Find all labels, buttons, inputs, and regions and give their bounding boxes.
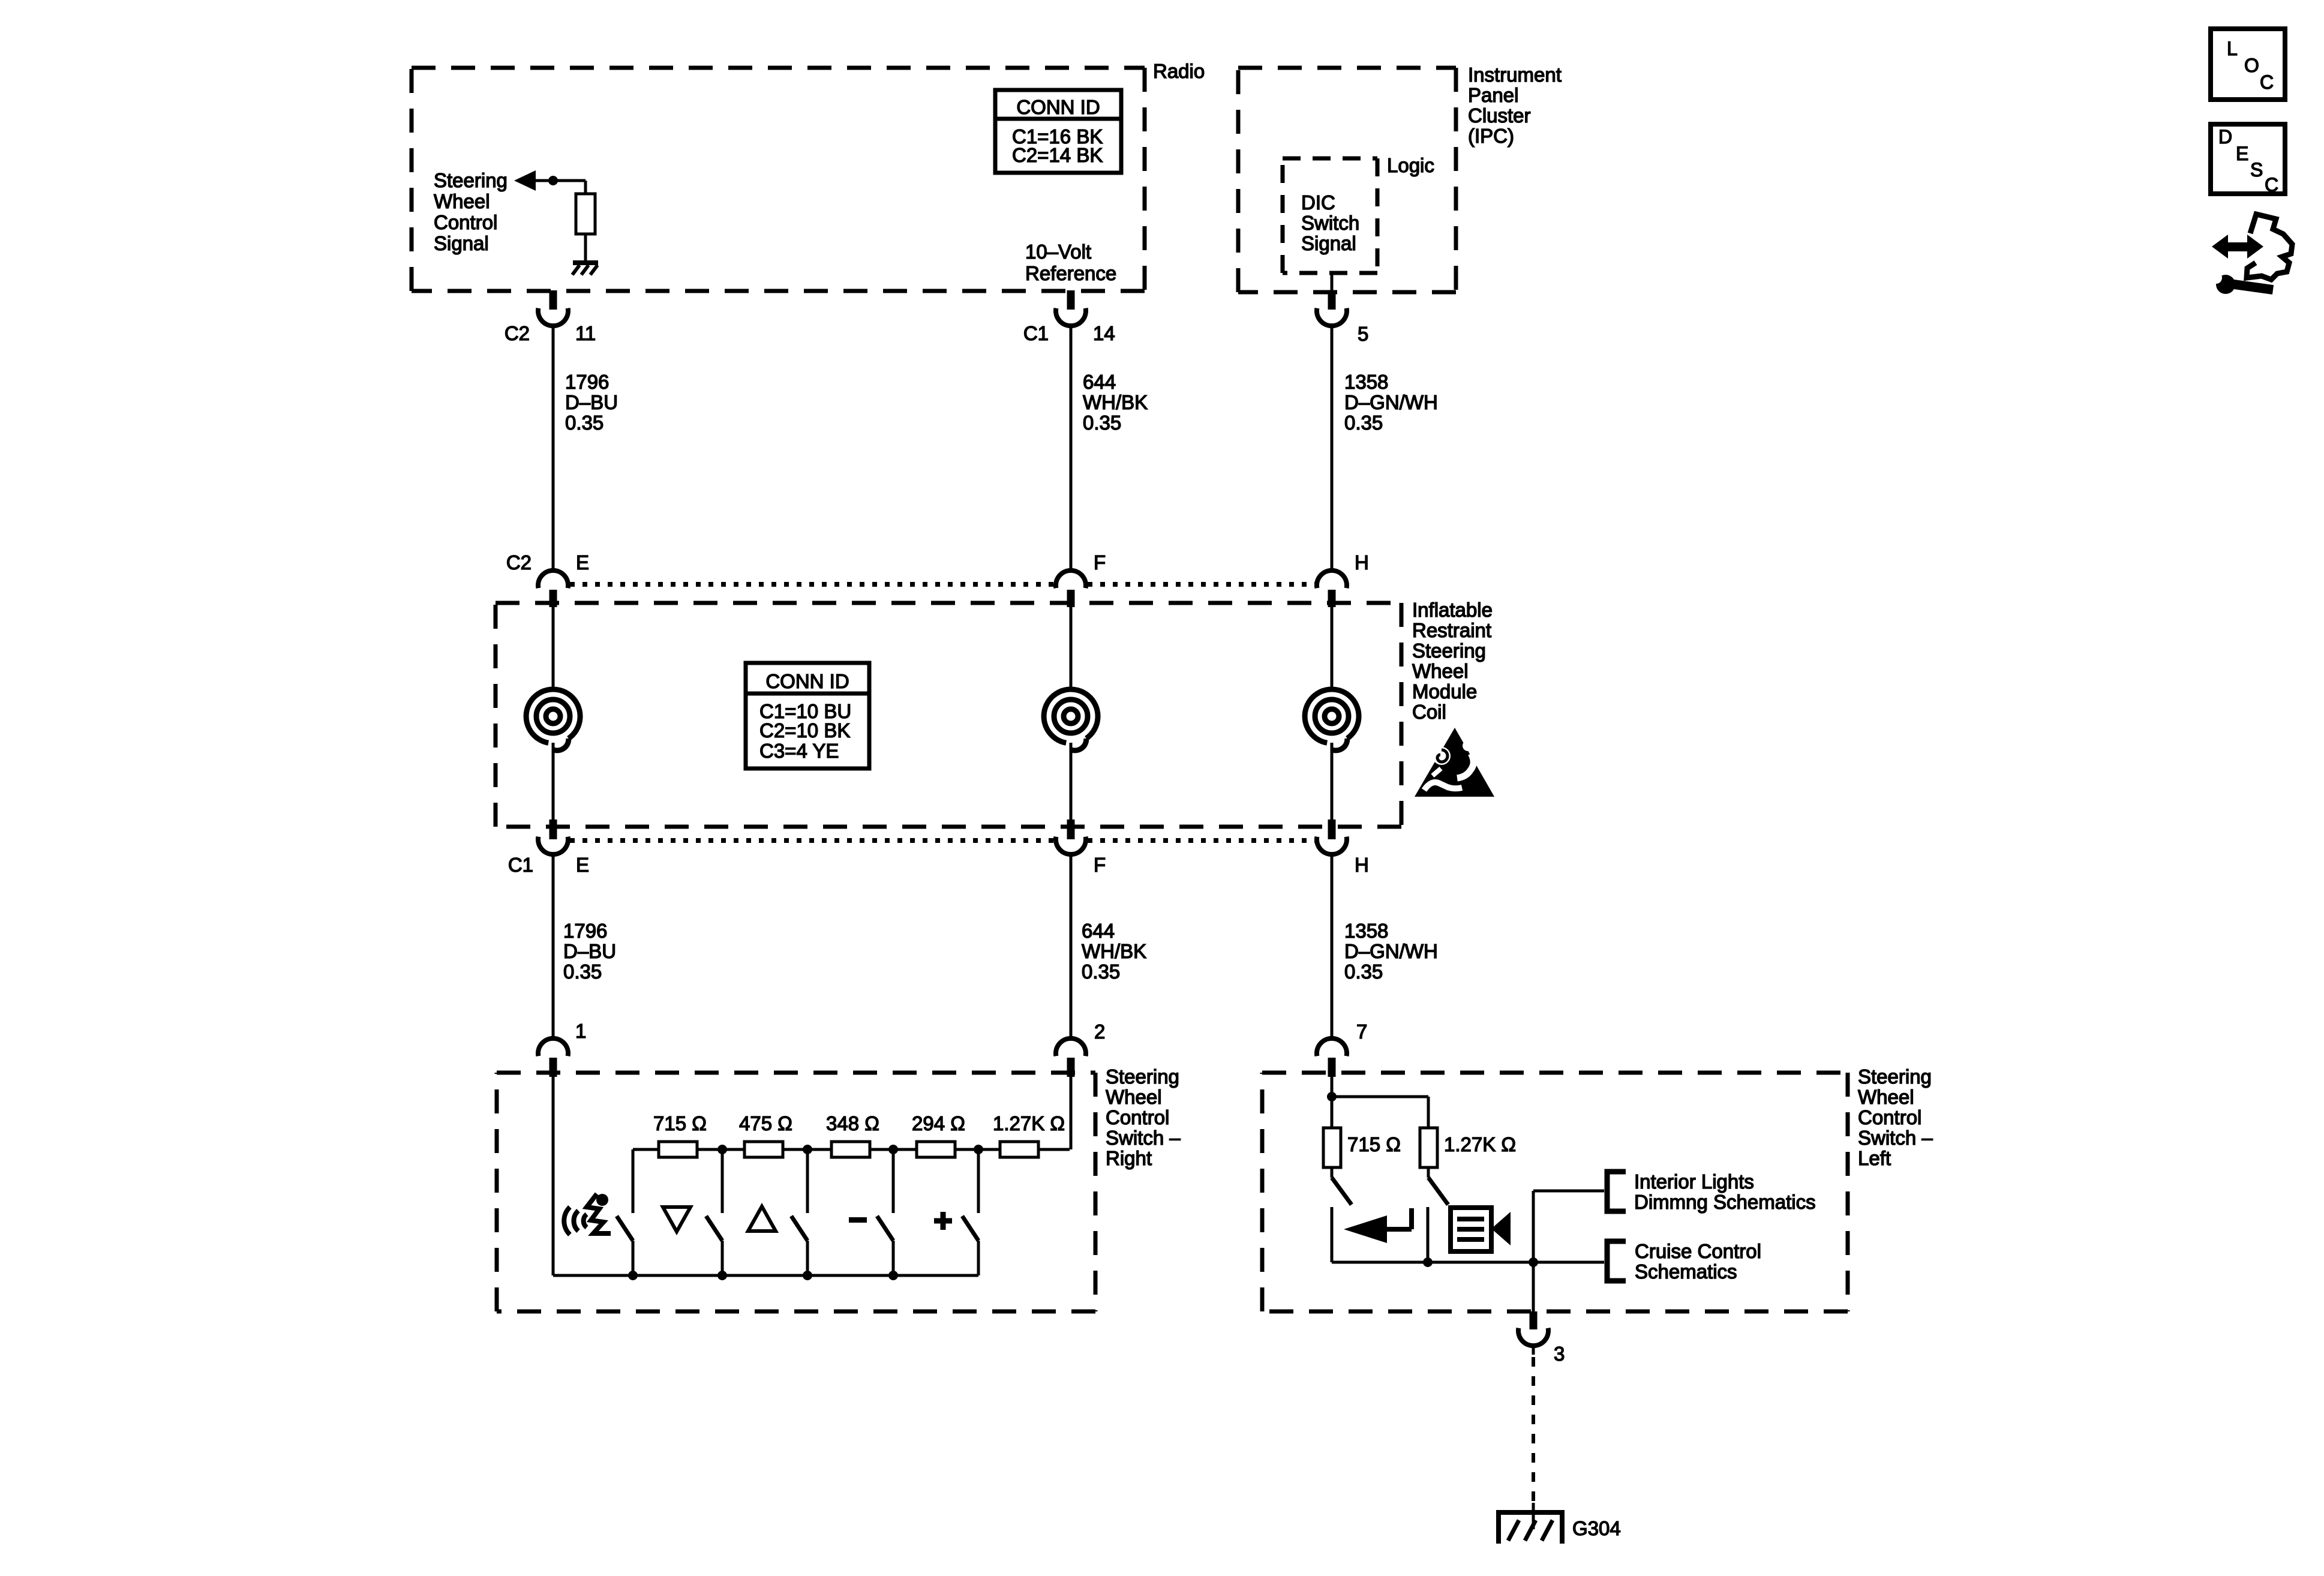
svg-text:1796: 1796 bbox=[563, 920, 607, 942]
svg-text:D: D bbox=[2218, 126, 2232, 148]
svg-text:F: F bbox=[1094, 854, 1106, 876]
svg-text:5: 5 bbox=[1358, 323, 1368, 345]
svg-text:D–GN/WH: D–GN/WH bbox=[1344, 391, 1438, 413]
svg-text:Wheel: Wheel bbox=[1106, 1086, 1162, 1108]
svg-text:Wheel: Wheel bbox=[1858, 1086, 1914, 1108]
svg-text:Steering: Steering bbox=[1858, 1065, 1932, 1088]
svg-text:D–GN/WH: D–GN/WH bbox=[1344, 940, 1438, 962]
svg-text:CONN ID: CONN ID bbox=[765, 670, 849, 692]
svg-text:475 Ω: 475 Ω bbox=[739, 1112, 792, 1134]
svg-text:Instrument: Instrument bbox=[1468, 64, 1562, 86]
svg-text:Switch –: Switch – bbox=[1106, 1127, 1181, 1149]
svg-text:0.35: 0.35 bbox=[563, 960, 602, 983]
svg-text:Module: Module bbox=[1412, 680, 1477, 703]
svg-text:H: H bbox=[1355, 854, 1369, 876]
svg-text:C: C bbox=[2265, 174, 2278, 196]
svg-text:Right: Right bbox=[1106, 1147, 1152, 1169]
svg-text:14: 14 bbox=[1093, 322, 1115, 344]
svg-text:Switch: Switch bbox=[1301, 212, 1359, 234]
svg-text:Steering: Steering bbox=[1106, 1065, 1179, 1088]
svg-text:C3=4 YE: C3=4 YE bbox=[759, 740, 839, 762]
svg-text:Wheel: Wheel bbox=[1412, 660, 1469, 682]
svg-text:1796: 1796 bbox=[565, 371, 609, 393]
svg-text:C1: C1 bbox=[508, 854, 533, 876]
svg-text:(IPC): (IPC) bbox=[1468, 125, 1514, 147]
svg-text:Cluster: Cluster bbox=[1468, 104, 1531, 127]
svg-text:C2=10 BK: C2=10 BK bbox=[759, 719, 850, 742]
svg-text:S: S bbox=[2250, 159, 2263, 181]
svg-text:3: 3 bbox=[1554, 1343, 1565, 1365]
svg-text:C: C bbox=[2260, 71, 2274, 93]
svg-text:D–BU: D–BU bbox=[563, 940, 616, 962]
svg-text:D–BU: D–BU bbox=[565, 391, 618, 413]
svg-text:Cruise Control: Cruise Control bbox=[1635, 1240, 1761, 1262]
svg-text:H: H bbox=[1355, 551, 1369, 574]
svg-text:E: E bbox=[576, 854, 589, 876]
svg-text:DIC: DIC bbox=[1301, 191, 1335, 214]
svg-text:348 Ω: 348 Ω bbox=[826, 1112, 879, 1134]
svg-text:Logic: Logic bbox=[1387, 154, 1434, 176]
svg-text:Wheel: Wheel bbox=[434, 190, 490, 212]
svg-text:0.35: 0.35 bbox=[1082, 960, 1120, 983]
svg-text:Signal: Signal bbox=[1301, 232, 1356, 254]
svg-text:Steering: Steering bbox=[1412, 640, 1486, 662]
svg-text:Schematics: Schematics bbox=[1635, 1260, 1737, 1283]
svg-text:CONN ID: CONN ID bbox=[1016, 96, 1100, 118]
svg-text:C2=14 BK: C2=14 BK bbox=[1012, 144, 1103, 166]
svg-text:C2: C2 bbox=[506, 551, 532, 574]
svg-text:644: 644 bbox=[1083, 371, 1116, 393]
svg-text:1: 1 bbox=[575, 1020, 586, 1042]
svg-text:2: 2 bbox=[1094, 1020, 1105, 1043]
svg-text:1358: 1358 bbox=[1344, 920, 1388, 942]
svg-text:C1: C1 bbox=[1023, 322, 1049, 344]
svg-text:Coil: Coil bbox=[1412, 701, 1446, 723]
svg-text:C2: C2 bbox=[505, 322, 530, 344]
svg-text:Switch –: Switch – bbox=[1858, 1127, 1933, 1149]
svg-text:Control: Control bbox=[1106, 1106, 1169, 1128]
svg-text:0.35: 0.35 bbox=[565, 412, 603, 434]
svg-text:Dimmng Schematics: Dimmng Schematics bbox=[1634, 1191, 1816, 1213]
svg-text:0.35: 0.35 bbox=[1083, 412, 1121, 434]
svg-text:F: F bbox=[1094, 551, 1106, 574]
svg-text:L: L bbox=[2227, 38, 2238, 59]
svg-text:7: 7 bbox=[1356, 1020, 1367, 1043]
svg-text:11: 11 bbox=[575, 322, 596, 344]
svg-text:Radio: Radio bbox=[1153, 60, 1205, 82]
svg-text:10–Volt: 10–Volt bbox=[1025, 241, 1091, 263]
svg-text:O: O bbox=[2244, 55, 2259, 76]
svg-text:715 Ω: 715 Ω bbox=[1347, 1133, 1401, 1155]
svg-text:Control: Control bbox=[1858, 1106, 1921, 1128]
svg-text:0.35: 0.35 bbox=[1344, 412, 1383, 434]
svg-text:Control: Control bbox=[434, 211, 497, 233]
svg-text:Signal: Signal bbox=[434, 232, 489, 254]
svg-text:715 Ω: 715 Ω bbox=[653, 1112, 707, 1134]
svg-text:0.35: 0.35 bbox=[1344, 960, 1383, 983]
svg-text:1358: 1358 bbox=[1344, 371, 1388, 393]
svg-text:Panel: Panel bbox=[1468, 84, 1518, 106]
svg-text:Left: Left bbox=[1858, 1147, 1891, 1169]
svg-text:1.27K Ω: 1.27K Ω bbox=[1444, 1133, 1516, 1155]
svg-text:G304: G304 bbox=[1572, 1517, 1621, 1539]
svg-text:E: E bbox=[2236, 143, 2248, 164]
svg-text:294 Ω: 294 Ω bbox=[912, 1112, 965, 1134]
svg-text:Reference: Reference bbox=[1025, 262, 1116, 284]
svg-text:Interior Lights: Interior Lights bbox=[1634, 1170, 1754, 1193]
svg-text:WH/BK: WH/BK bbox=[1083, 391, 1148, 413]
svg-text:E: E bbox=[576, 551, 589, 574]
svg-text:Restraint: Restraint bbox=[1412, 619, 1491, 641]
svg-text:644: 644 bbox=[1082, 920, 1115, 942]
svg-text:Inflatable: Inflatable bbox=[1412, 599, 1493, 621]
svg-text:Steering: Steering bbox=[434, 169, 508, 191]
svg-text:1.27K Ω: 1.27K Ω bbox=[993, 1112, 1065, 1134]
svg-text:WH/BK: WH/BK bbox=[1082, 940, 1146, 962]
